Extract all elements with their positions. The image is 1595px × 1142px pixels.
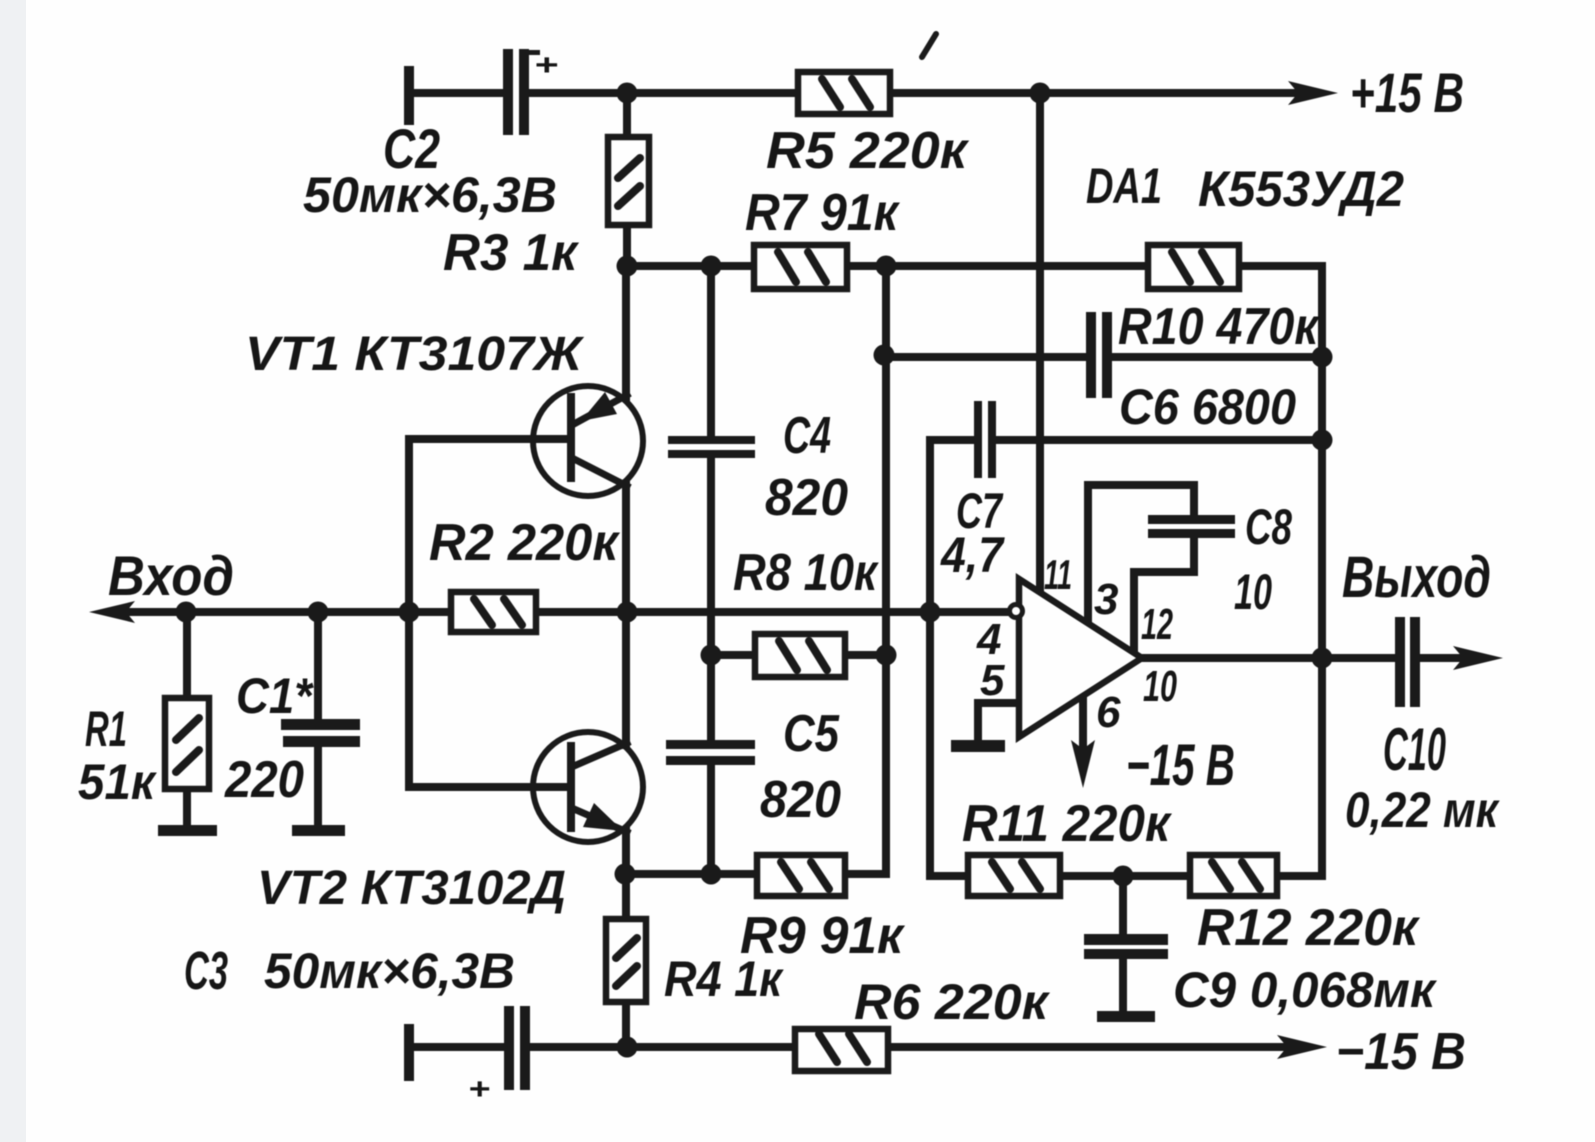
svg-text:4,7: 4,7 bbox=[940, 527, 1005, 583]
svg-text:C1*: C1* bbox=[236, 668, 314, 724]
svg-text:6: 6 bbox=[1096, 688, 1121, 737]
svg-text:5: 5 bbox=[980, 656, 1005, 705]
svg-text:Вход: Вход bbox=[108, 544, 234, 607]
svg-text:R1: R1 bbox=[85, 701, 127, 757]
svg-text:0,22 мк: 0,22 мк bbox=[1345, 782, 1500, 838]
svg-text:10: 10 bbox=[1234, 564, 1272, 620]
svg-text:R3 1к: R3 1к bbox=[443, 224, 580, 282]
svg-text:C4: C4 bbox=[783, 407, 831, 465]
svg-text:R5 220к: R5 220к bbox=[766, 122, 970, 180]
svg-text:Выход: Выход bbox=[1342, 545, 1491, 610]
svg-text:R9 91к: R9 91к bbox=[740, 907, 906, 965]
svg-text:R7 91к: R7 91к bbox=[745, 184, 900, 242]
svg-text:C9 0,068мк: C9 0,068мк bbox=[1173, 962, 1438, 1018]
svg-text:+15 В: +15 В bbox=[1350, 61, 1464, 124]
svg-text:С6 6800: С6 6800 bbox=[1119, 379, 1296, 435]
svg-text:50мк×6,3В: 50мк×6,3В bbox=[264, 943, 515, 999]
svg-text:К553УД2: К553УД2 bbox=[1198, 161, 1404, 217]
svg-text:R12 220к: R12 220к bbox=[1197, 899, 1421, 957]
svg-text:10: 10 bbox=[1143, 662, 1177, 711]
svg-text:−15 В: −15 В bbox=[1336, 1023, 1466, 1081]
svg-text:C8: C8 bbox=[1245, 499, 1292, 555]
svg-text:R11 220к: R11 220к bbox=[962, 795, 1172, 853]
svg-text:820: 820 bbox=[765, 469, 848, 527]
svg-text:−15 В: −15 В bbox=[1126, 733, 1235, 798]
svg-text:R8 10к: R8 10к bbox=[733, 544, 879, 602]
svg-text:C10: C10 bbox=[1383, 716, 1446, 783]
svg-text:+: + bbox=[534, 49, 558, 82]
svg-text:51к: 51к bbox=[78, 754, 158, 810]
svg-text:11: 11 bbox=[1044, 551, 1072, 598]
svg-text:12: 12 bbox=[1141, 600, 1173, 649]
svg-text:VT1 КТ3107Ж: VT1 КТ3107Ж bbox=[245, 328, 585, 381]
svg-text:50мк×6,3В: 50мк×6,3В bbox=[303, 167, 557, 223]
svg-text:C5: C5 bbox=[783, 705, 840, 763]
svg-text:DA1: DA1 bbox=[1086, 158, 1162, 214]
svg-text:VT2 КТ3102Д: VT2 КТ3102Д bbox=[257, 862, 566, 915]
svg-text:R10 470к: R10 470к bbox=[1118, 298, 1320, 356]
svg-text:220: 220 bbox=[224, 751, 304, 809]
svg-text:R2 220к: R2 220к bbox=[429, 514, 621, 572]
svg-text:R6 220к: R6 220к bbox=[854, 974, 1051, 1030]
svg-text:+: + bbox=[468, 1073, 490, 1106]
svg-text:820: 820 bbox=[760, 771, 841, 829]
svg-text:C3: C3 bbox=[184, 941, 228, 1001]
svg-text:3: 3 bbox=[1094, 575, 1118, 624]
